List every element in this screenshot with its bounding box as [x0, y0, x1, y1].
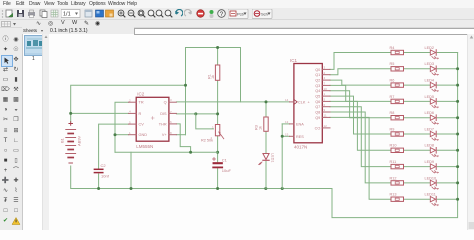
wire 4017 Q0 to R4 [330, 53, 391, 70]
wire LED3 to return bus [437, 68, 457, 70]
wire LED6 to return bus [437, 117, 457, 119]
svg-text:R5: R5 [390, 62, 395, 66]
wire battery+ to 555 R pin (reset rail) [71, 112, 129, 114]
wire R6 to LED4 [404, 84, 430, 86]
menu bar [0, 0, 474, 9]
wire ENA pin [282, 123, 289, 125]
node LED5/bus junction [456, 100, 459, 103]
wire DIS node to R2 wiper [196, 114, 214, 129]
svg-text:Q0: Q0 [315, 68, 320, 72]
resistor R13 [391, 197, 404, 201]
wire LED4 to return bus [437, 84, 457, 86]
wire LED5 to return bus [437, 100, 457, 102]
wire LED9 to return bus [437, 166, 457, 168]
battery B1 [66, 122, 76, 163]
wire R12 to LED10 [404, 182, 430, 184]
wire 4017 Q1 to R5 [330, 69, 391, 75]
potentiometer R2 [215, 125, 219, 136]
svg-text:DIS: DIS [160, 112, 167, 116]
svg-text:Q4: Q4 [315, 89, 320, 93]
node GND tee [114, 133, 117, 136]
wire R13 to LED11 [404, 198, 430, 200]
wire C2 bottom to ground rail [98, 174, 100, 189]
node battery+/R junction [69, 112, 72, 115]
wire 4017 Q5 to R9 [330, 96, 391, 134]
wire R8 to LED6 [404, 117, 430, 119]
svg-text:Q8: Q8 [315, 111, 320, 115]
wire 555 Q to 4017 CLK [176, 101, 289, 103]
svg-text:B1: B1 [60, 137, 65, 143]
svg-text:LED6: LED6 [425, 111, 435, 115]
node LED9/bus junction [456, 165, 459, 168]
wire 4017 Q8 to R12 [330, 112, 391, 183]
wire top rail to R1 top [217, 48, 219, 66]
svg-text:Q9: Q9 [315, 116, 320, 120]
wire V+ riser and top rail [186, 48, 241, 135]
LED5 [430, 99, 435, 104]
resistor R12 [391, 181, 404, 185]
node LED4/bus junction [456, 84, 459, 87]
capacitor C2 [94, 168, 102, 170]
node LED1/ground [264, 187, 267, 190]
wire 4017 Q9 to R13 [330, 117, 391, 199]
svg-text:C1: C1 [222, 158, 228, 163]
wire LED2 to return bus [437, 52, 457, 54]
svg-text:AB9V: AB9V [77, 135, 82, 146]
node C1/ground [216, 187, 219, 190]
LED8 [430, 148, 435, 153]
wire 4017 Q6 to R10 [330, 101, 391, 150]
LED3 [430, 66, 435, 71]
wire R11 to LED9 [404, 166, 430, 168]
resistor R3 [264, 117, 268, 131]
node LED11/bus junction [456, 198, 459, 201]
node DIS/wiper junction [194, 112, 197, 115]
node V+ rail junction [184, 84, 187, 87]
svg-text:GND: GND [139, 133, 148, 137]
svg-text:R10: R10 [390, 144, 397, 148]
resistor R8 [391, 116, 404, 120]
wire 555 THR to timing node [176, 124, 190, 152]
svg-text:LED11: LED11 [425, 193, 436, 197]
svg-text:ENA: ENA [296, 122, 304, 126]
node R1 top junction [216, 46, 219, 49]
counter IC1 4017N [294, 64, 322, 143]
svg-text:R6: R6 [390, 79, 395, 83]
resistor R4 [391, 50, 404, 54]
wire ground rail and LED return bus [71, 53, 458, 218]
svg-text:R8: R8 [390, 111, 395, 115]
wire 4017 Q7 to R11 [330, 107, 391, 167]
wire CLK to R3 top [265, 102, 267, 117]
node DIS/R1/R2 junction [216, 112, 219, 115]
svg-text:LM555N: LM555N [136, 144, 153, 149]
node ENA-RES/ground [281, 187, 284, 190]
node THR tee [189, 151, 192, 154]
svg-text:LED8: LED8 [425, 144, 435, 148]
sheets panel with thumbnail [23, 34, 48, 230]
LED4 [430, 82, 435, 87]
wire 555 DIS to R1/R2 node [176, 113, 217, 115]
resistor R9 [391, 132, 404, 136]
toolbar row 1 [0, 8, 474, 20]
svg-text:LED5: LED5 [425, 95, 435, 99]
svg-text:TR: TR [139, 101, 144, 105]
svg-text:10uF: 10uF [222, 168, 232, 173]
svg-text:CLK: CLK [298, 100, 306, 104]
resistor R5 [391, 67, 404, 71]
wire C2 top to 555 CV pin [99, 124, 129, 169]
wire R9 to LED7 [404, 133, 430, 135]
node CLK/R3 junction [265, 100, 268, 103]
resistor R6 [391, 83, 404, 87]
svg-text:4017N: 4017N [294, 145, 307, 150]
toolbar row 2 [0, 20, 474, 28]
svg-text:Q: Q [164, 101, 167, 105]
svg-text:CV: CV [139, 123, 145, 127]
svg-text:THR: THR [159, 122, 167, 126]
wire battery+ to V+ rail [71, 85, 186, 122]
LED10 [430, 180, 435, 185]
svg-text:R12: R12 [390, 176, 397, 180]
wire 555 TR left riser [115, 102, 129, 152]
op-amp/timer IC2 LM555N [136, 97, 169, 141]
wire R10 to LED8 [404, 149, 430, 151]
svg-text:IC1: IC1 [290, 58, 298, 63]
svg-text:Q1: Q1 [315, 73, 320, 77]
svg-text:V+: V+ [162, 133, 168, 137]
capacitor C1 [214, 162, 222, 164]
wire R5 to LED3 [404, 68, 430, 70]
wire 555 V+ pin to riser [176, 134, 185, 136]
LED2 [430, 50, 435, 55]
wire C1 bottom to ground rail [217, 169, 219, 189]
wire timing node line [115, 151, 218, 153]
svg-text:R11: R11 [390, 160, 397, 164]
wire R3 bottom to LED1 [265, 131, 267, 153]
node C2/ground [97, 187, 100, 190]
wire 4017 Q2 to R6 [330, 80, 391, 85]
svg-text:LED9: LED9 [425, 160, 435, 164]
wire ENA/RES riser to ground [281, 124, 283, 189]
svg-text:LED10: LED10 [425, 176, 437, 180]
svg-text:13: 13 [285, 120, 289, 124]
canvas right scrollbar [467, 34, 474, 230]
LED9 [430, 164, 435, 169]
svg-text:LED3: LED3 [425, 62, 435, 66]
svg-text:R: R [139, 112, 142, 116]
svg-text:R9: R9 [390, 127, 395, 131]
node LED8/bus junction [456, 149, 459, 152]
svg-text:10: 10 [324, 87, 328, 91]
svg-text:LED2: LED2 [425, 46, 435, 50]
svg-text:14: 14 [285, 98, 289, 102]
wire 555 GND pin to riser [115, 134, 129, 136]
wire R2 bottom to C1 top [217, 136, 219, 162]
LED6 [430, 115, 435, 120]
svg-text:CO: CO [315, 126, 321, 130]
svg-text:Q2: Q2 [315, 79, 320, 83]
wire 4017 Q3 to R7 [330, 85, 391, 101]
wire LED1 cathode to ground rail [265, 161, 267, 189]
wire LED7 to return bus [437, 133, 457, 135]
svg-text:LED1: LED1 [271, 153, 275, 163]
svg-text:10nf: 10nf [101, 174, 110, 179]
svg-text:R13: R13 [390, 193, 397, 197]
wire LED10 to return bus [437, 182, 457, 184]
wire RES pin [282, 135, 289, 137]
wire R4 to LED2 [404, 52, 430, 54]
wire R7 to LED5 [404, 100, 430, 102]
node THR/C1 junction [216, 151, 219, 154]
node LED7/bus junction [456, 133, 459, 136]
svg-text:IC2: IC2 [137, 92, 145, 97]
node LED6/bus junction [456, 116, 459, 119]
wire 4017 Q4 to R8 [330, 91, 391, 118]
wire LED11 to return bus [437, 198, 457, 200]
svg-text:11: 11 [324, 114, 327, 118]
svg-text:LED4: LED4 [425, 79, 435, 83]
node gnd riser/ground [130, 187, 133, 190]
wire R1 bottom to pot R2 top [217, 80, 219, 124]
svg-text:1k: 1k [259, 126, 263, 130]
svg-text:12: 12 [324, 124, 328, 128]
svg-text:Q7: Q7 [315, 105, 320, 109]
wire LED8 to return bus [437, 149, 457, 151]
resistor R11 [391, 164, 404, 168]
wire node to ground rail [130, 152, 132, 188]
svg-text:3: 3 [170, 98, 172, 102]
svg-text:RES: RES [296, 135, 304, 139]
svg-text:1k: 1k [211, 75, 215, 79]
resistor R10 [391, 148, 404, 152]
svg-text:R4: R4 [390, 46, 395, 50]
node LED10/bus junction [456, 181, 459, 184]
svg-text:Q3: Q3 [315, 84, 320, 88]
svg-text:R2 50k: R2 50k [201, 139, 213, 143]
svg-text:Q5: Q5 [315, 95, 320, 99]
svg-text:LED7: LED7 [425, 127, 435, 131]
LED7 [430, 131, 435, 136]
svg-text:C2: C2 [101, 163, 107, 168]
node LED3/bus junction [456, 67, 459, 70]
left icon toolbar [0, 34, 23, 230]
resistor R7 [391, 99, 404, 103]
command/status row with coords and command input [0, 28, 474, 34]
node ENA/RES tee [281, 135, 284, 138]
LED1 [263, 154, 269, 160]
svg-text:Q6: Q6 [315, 100, 320, 104]
svg-text:15: 15 [285, 132, 289, 136]
svg-text:R7: R7 [390, 95, 395, 99]
resistor R1 [215, 65, 219, 80]
LED11 [430, 197, 435, 202]
